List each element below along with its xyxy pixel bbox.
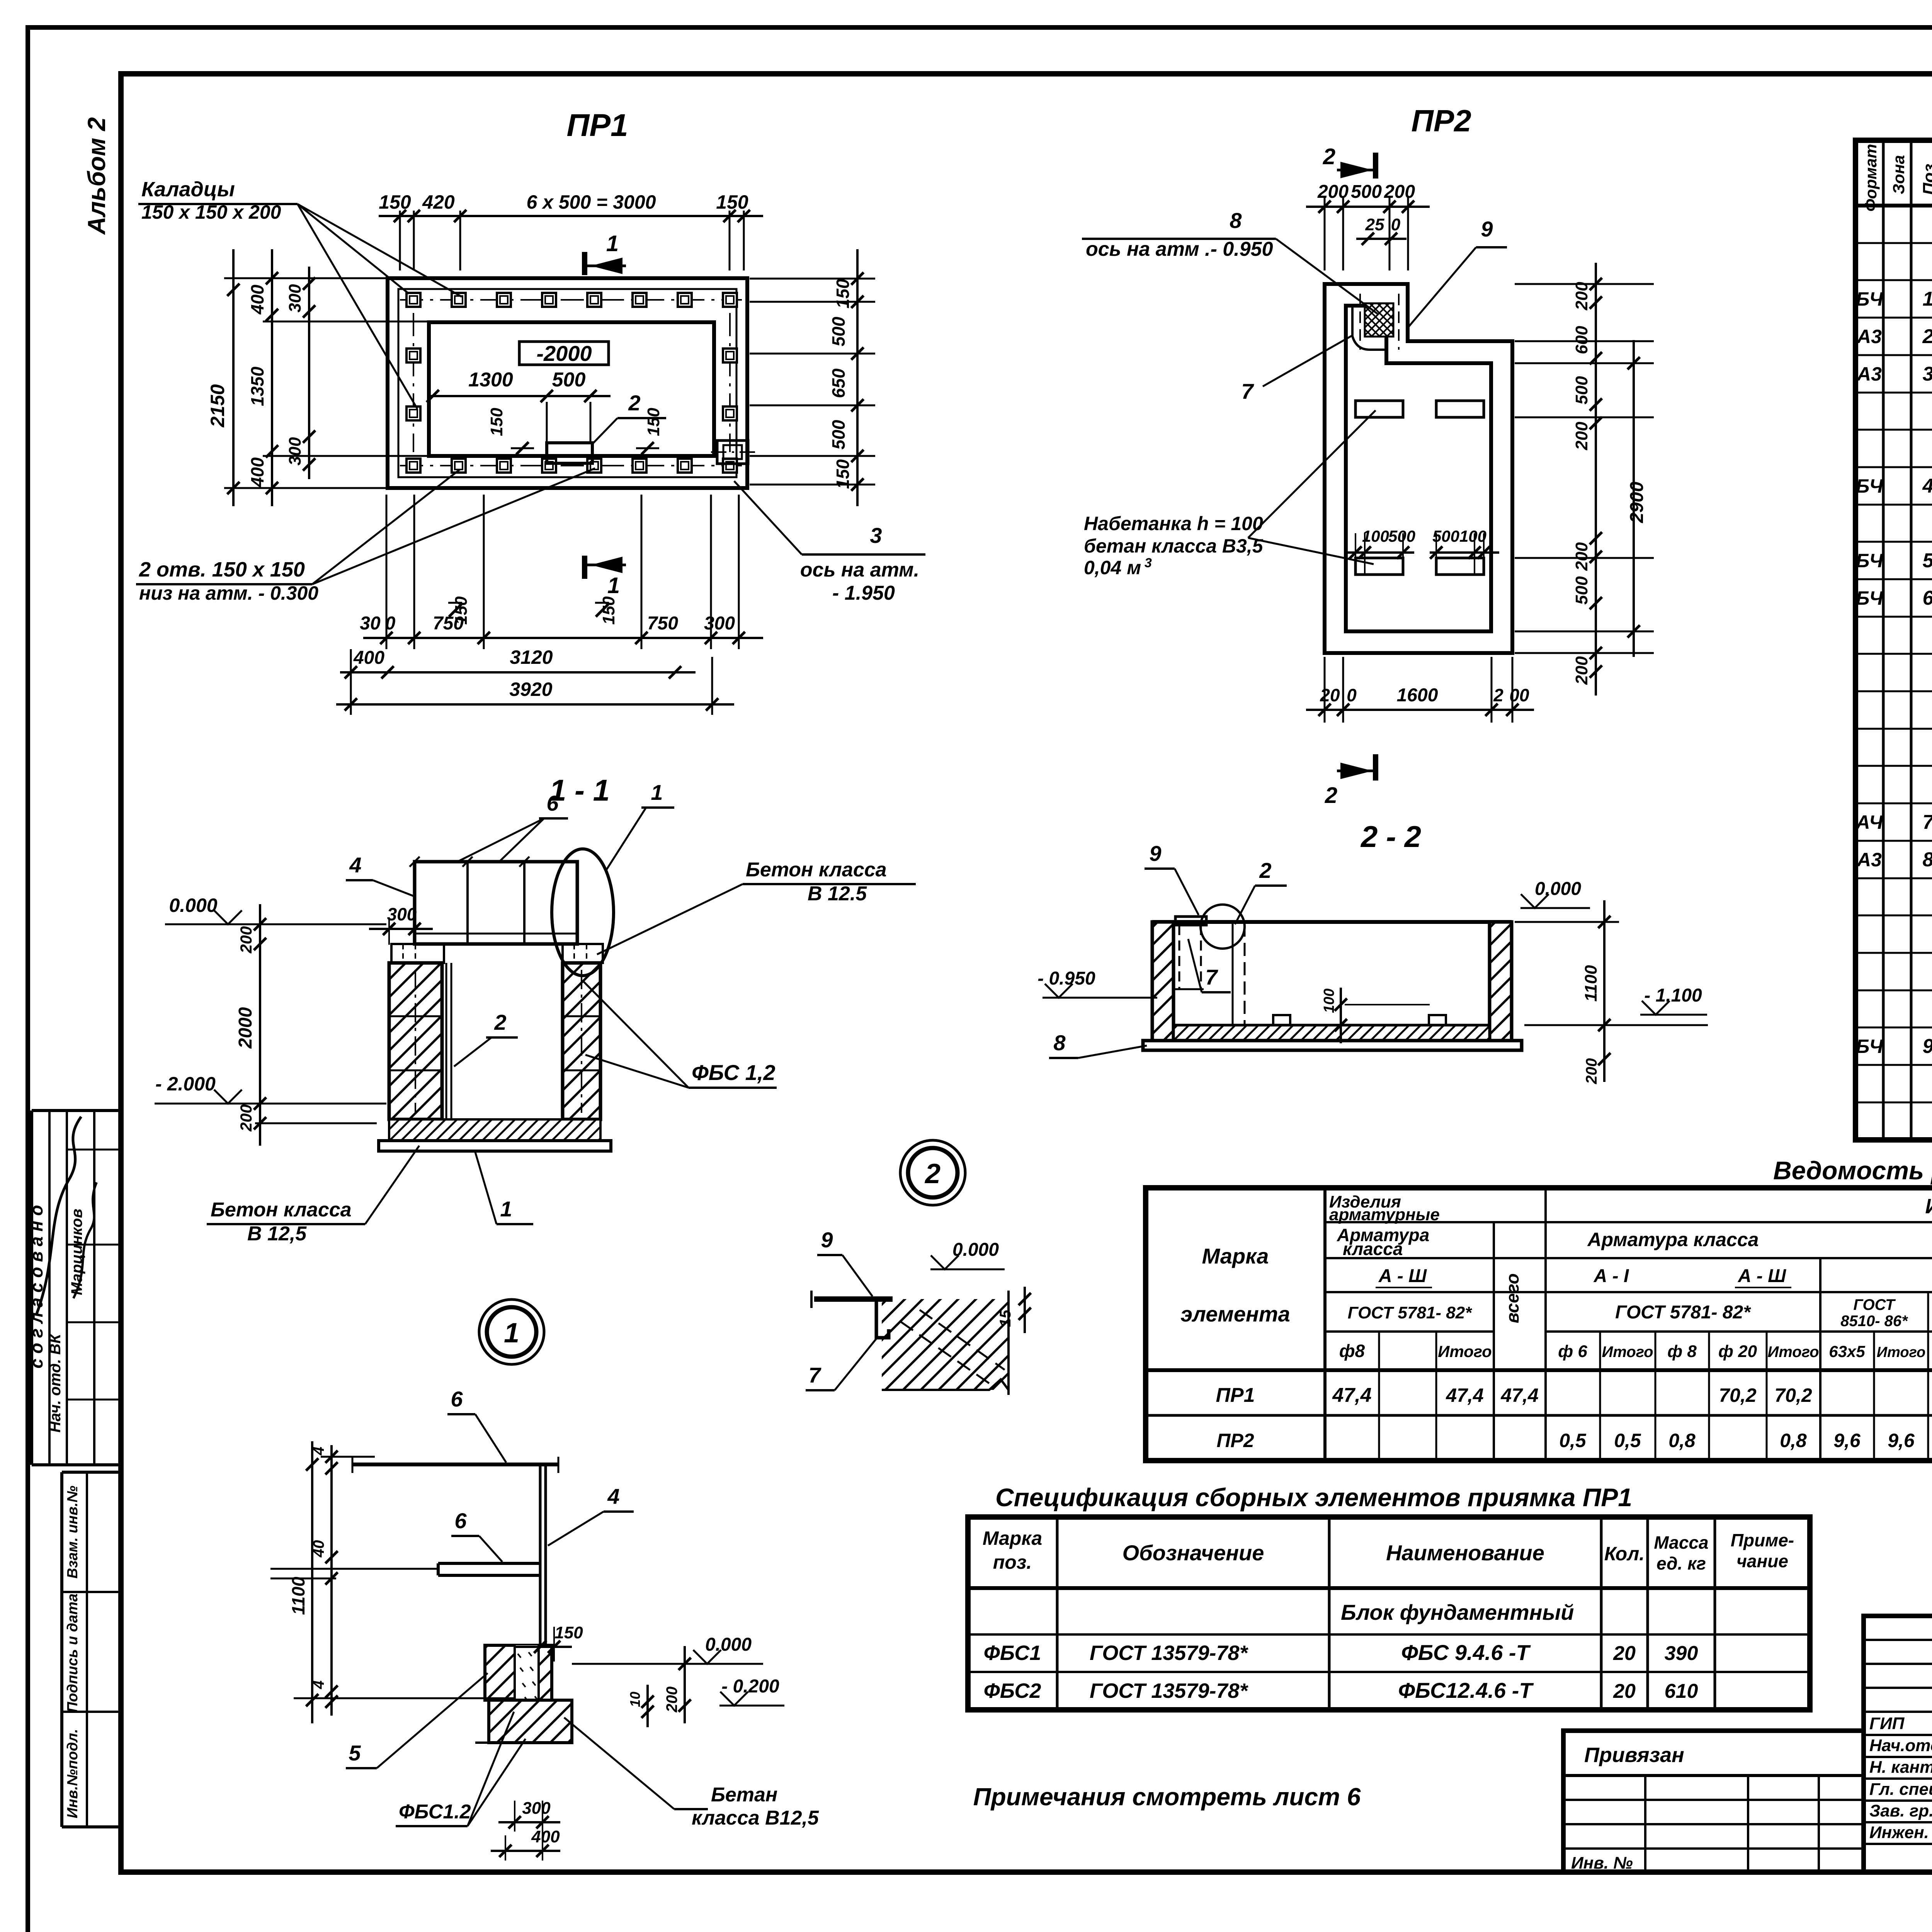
left stamp table (inv no / podpis) [62,1472,121,1827]
svg-text:2150: 2150 [207,384,228,427]
svg-text:ФБС2: ФБС2 [984,1679,1041,1702]
svg-text:ось на атм.: ось на атм. [800,559,919,581]
svg-text:300: 300 [522,1799,551,1818]
svg-text:2 - 2: 2 - 2 [1360,820,1421,854]
svg-text:1: 1 [607,573,620,598]
plan PR2 title [1411,104,1471,138]
section 2-2 level -0.950 [1037,968,1157,998]
section 2-2 dim 100 [1321,988,1430,1043]
detail 2 label 9 [817,1228,872,1296]
svg-text:ф 8: ф 8 [1667,1342,1697,1361]
section 2-2 tank walls [1143,922,1522,1050]
svg-text:150: 150 [833,279,853,308]
svg-text:300: 300 [704,613,735,634]
detail 1 level 0.000 [572,1634,763,1664]
svg-text:4: 4 [607,1484,619,1509]
svg-text:элемента: элемента [1180,1302,1290,1326]
svg-text:200: 200 [1572,542,1591,571]
svg-text:ГИП: ГИП [1869,1714,1905,1733]
svg-text:БЧ: БЧ [1856,1036,1884,1057]
svg-text:1: 1 [500,1197,512,1221]
svg-text:2: 2 [628,391,640,415]
spec table grid [1855,140,1932,1140]
svg-text:А3: А3 [1856,849,1882,871]
svg-text:ФБС12.4.6 -Т: ФБС12.4.6 -Т [1398,1678,1534,1702]
plan PR1 pit ledge (pos 2 opening) [547,443,592,463]
plan PR2 nabetonka note [1084,410,1376,578]
svg-text:Обозначение: Обозначение [1122,1541,1264,1565]
svg-text:100: 100 [1362,527,1389,545]
svg-text:400: 400 [247,457,267,487]
svg-text:2: 2 [1493,685,1503,705]
svg-text:200: 200 [663,1687,680,1713]
svg-text:5: 5 [349,1741,361,1765]
left stamp table (soglasovano) [26,1111,121,1465]
svg-text:БЧ: БЧ [1856,550,1884,571]
svg-text:А - Ш: А - Ш [1738,1266,1786,1286]
section 1-1 label FBS 1,2 [583,981,777,1088]
svg-text:- 1.100: - 1.100 [1644,985,1702,1006]
vedomost header texts [1180,1192,1932,1367]
svg-text:200: 200 [237,926,255,954]
svg-text:8: 8 [1923,849,1932,871]
svg-text:150: 150 [487,408,506,436]
svg-text:20: 20 [1613,1680,1636,1702]
detail 2 level 0.000 [930,1240,1005,1269]
svg-text:2: 2 [1259,858,1271,883]
svg-text:2 отв. 150 x 150: 2 отв. 150 x 150 [139,558,305,581]
svg-text:3920: 3920 [509,679,552,700]
plan PR1 anchor plates left+right columns [406,313,737,452]
svg-text:200: 200 [1317,182,1349,202]
svg-text:7: 7 [808,1363,821,1387]
svg-text:20: 20 [1613,1642,1636,1665]
svg-text:2: 2 [1325,783,1337,808]
plan PR2 section mark 2 (bottom) [1325,754,1376,808]
svg-text:Каладцы: Каладцы [141,178,235,201]
svg-text:150: 150 [599,596,618,625]
plan PR2 salnik (gland) hatch [1352,294,1399,350]
svg-text:Изделия закладные: Изделия закладные [1925,1195,1932,1218]
plan PR2 section mark 2 (top) [1323,144,1376,179]
plan PR1 leader pos 3 axis note [734,481,925,604]
plan PR1 left dimension chains [207,249,429,506]
svg-text:5: 5 [1923,549,1932,572]
svg-text:бетан класса В3,5: бетан класса В3,5 [1084,535,1264,557]
detail 1 label FBS1.2 [396,1712,526,1826]
svg-text:9,6: 9,6 [1888,1430,1915,1451]
section 1-1 ladder pos 2 [446,963,451,1119]
plan PR1 anchor plates bottom row [400,459,742,473]
section 2-2 label 8 [1049,1031,1147,1058]
svg-text:9: 9 [1481,217,1493,241]
svg-text:В 12,5: В 12,5 [247,1223,307,1245]
svg-text:500: 500 [1351,182,1382,202]
precast elements table texts [983,1527,1794,1702]
svg-text:1600: 1600 [1397,685,1438,706]
svg-text:0: 0 [1391,215,1401,234]
svg-text:150: 150 [833,459,853,489]
svg-text:Гл. спец.: Гл. спец. [1869,1780,1932,1799]
section 2-2 floor pads [1273,1015,1446,1025]
detail 1 note beton B12.5 [564,1718,819,1829]
plan PR1 anchor plates top row [400,293,742,307]
svg-text:ФБС1.2: ФБС1.2 [399,1801,471,1823]
plan PR1 walls [388,278,747,488]
svg-text:3: 3 [870,523,882,548]
svg-text:70,2: 70,2 [1774,1384,1812,1406]
svg-text:0,8: 0,8 [1780,1430,1807,1451]
svg-text:2: 2 [1323,144,1335,169]
plan PR1 corner plate pos 9 [711,440,757,464]
section 2-2 label 2 [1235,858,1287,924]
svg-text:500: 500 [828,420,849,449]
svg-text:70,2: 70,2 [1719,1384,1757,1406]
svg-text:2900: 2900 [1627,481,1647,523]
svg-text:500: 500 [552,369,586,391]
svg-text:30: 30 [360,613,381,634]
svg-text:ф 6: ф 6 [1558,1342,1587,1361]
section 2-2 label 9 [1145,841,1199,915]
svg-text:4: 4 [310,1447,327,1456]
plan PR2 label pos 8 axis note [1082,208,1378,314]
section 1-1 note beton B12.5 (top right) [597,859,916,954]
svg-text:150: 150 [452,596,471,625]
svg-text:Зона: Зона [1889,155,1908,194]
svg-text:чание: чание [1736,1551,1788,1571]
precast elements table title [995,1483,1632,1512]
plan PR2 mid dimensions 100 500 [1345,527,1499,576]
svg-text:Бетон класса: Бетон класса [746,859,887,881]
svg-text:Марка: Марка [983,1527,1042,1549]
svg-text:6: 6 [454,1509,467,1533]
svg-text:6: 6 [546,791,559,815]
detail 1 label 4 [548,1484,634,1546]
svg-text:40: 40 [310,1540,327,1558]
svg-text:ГОСТ 5781- 82*: ГОСТ 5781- 82* [1615,1302,1751,1323]
detail 1 labels 6 [447,1387,506,1463]
svg-text:500: 500 [828,316,849,346]
svg-text:610: 610 [1665,1680,1698,1702]
section 1-1 left wall (FBS blocks) [389,963,442,1119]
svg-text:200: 200 [1572,656,1591,685]
svg-text:Марка: Марка [1202,1244,1269,1268]
svg-text:6 х 500 = 3000: 6 х 500 = 3000 [526,191,656,213]
svg-text:В 12.5: В 12.5 [808,883,867,905]
section 1-1 note beton B12.5 (bottom left) [207,1146,419,1245]
svg-text:400: 400 [247,284,267,315]
svg-text:А - I: А - I [1594,1266,1629,1286]
svg-text:Набетанка h = 100: Набетанка h = 100 [1084,513,1263,534]
svg-text:150: 150 [716,191,748,213]
detail 2 dim 15 [997,1287,1031,1333]
svg-text:8510- 86*: 8510- 86* [1840,1313,1908,1330]
section 1-1 dim 300 [369,904,433,945]
svg-text:2: 2 [924,1158,940,1189]
svg-text:ФБС1: ФБС1 [984,1641,1041,1665]
svg-text:10: 10 [627,1692,643,1707]
plan PR1 title [566,108,628,143]
svg-text:БЧ: БЧ [1856,475,1884,497]
section 1-1 cover slab [410,857,577,944]
svg-text:2: 2 [1922,325,1932,348]
svg-text:0.000: 0.000 [952,1240,999,1260]
svg-text:Подпись и дата: Подпись и дата [65,1594,81,1713]
svg-text:8: 8 [1053,1031,1066,1055]
section 1-1 label 1 (top) [607,780,674,869]
svg-text:25: 25 [1365,215,1384,234]
svg-text:Кол.: Кол. [1604,1543,1645,1565]
section 1-1 label 4 [346,853,415,896]
section 1-1 left dimension chain [235,904,386,1146]
precast elements table grid [968,1517,1810,1710]
svg-text:7: 7 [1241,379,1254,403]
svg-text:Привязан: Привязан [1584,1743,1684,1767]
title block staff names [1869,1714,1932,1842]
svg-text:Примечания смотреть лист: Примечания смотреть лист 6 [973,1783,1361,1811]
svg-text:0: 0 [385,613,396,634]
plan PR2 right dimension chains [1515,263,1654,696]
section 2-2 label 7 [1188,939,1231,992]
svg-text:1100: 1100 [1582,965,1600,1002]
svg-text:8: 8 [1230,208,1242,233]
svg-text:1: 1 [606,231,619,256]
svg-text:арматурные: арматурные [1329,1205,1440,1224]
svg-text:47,4: 47,4 [1500,1384,1538,1406]
svg-text:Нач. отд. ВК: Нач. отд. ВК [47,1333,64,1432]
detail 2 label 7 [806,1338,877,1390]
spec table header [1862,144,1932,211]
svg-text:0.000: 0.000 [1535,879,1581,899]
section 2-2 level 0.000 [1515,879,1619,922]
svg-text:- 1.950: - 1.950 [832,582,895,604]
svg-text:3120: 3120 [510,646,553,668]
svg-text:Итого: Итого [1602,1344,1653,1361]
plan PR1 right dimension chain [750,249,875,506]
plan PR2 label pos 7 [1229,335,1352,406]
svg-text:0,8: 0,8 [1668,1430,1696,1451]
plan PR1 section mark 1 (bottom) [585,556,626,598]
svg-text:класса: класса [1343,1239,1403,1259]
svg-text:АЧ: АЧ [1855,811,1883,833]
svg-text:47,4: 47,4 [1332,1384,1371,1406]
svg-text:- 0.200: - 0.200 [721,1676,779,1697]
plan PR1 label Kaladtsy 150x150x200 [138,178,462,409]
svg-text:400: 400 [353,648,384,668]
section 1-1 level mark 0.000 [165,895,255,924]
notes line [973,1783,1361,1811]
plan PR1 section mark 1 (top) [585,231,626,275]
svg-text:А - Ш: А - Ш [1378,1266,1427,1286]
plan PR1 top dimension chain [379,191,763,270]
detail circle mark 1 [479,1299,544,1364]
svg-text:Инв. №: Инв. № [1571,1854,1633,1872]
svg-text:9: 9 [821,1228,833,1252]
svg-text:0.000: 0.000 [705,1634,752,1655]
svg-text:ось на атм .- 0.950: ось на атм .- 0.950 [1086,238,1273,260]
svg-text:БЧ: БЧ [1856,587,1884,609]
section 1-1 level mark -2.000 [155,1073,255,1104]
svg-text:9: 9 [1149,841,1161,866]
svg-text:4: 4 [349,853,361,877]
detail 1 level -0.200 [719,1676,784,1706]
section 1-1 detail ellipse callout [552,849,614,976]
svg-text:ФБС 1,2: ФБС 1,2 [692,1060,775,1085]
title block staff table [1864,1616,1932,1872]
svg-text:Итого: Итого [1877,1344,1925,1361]
svg-text:низ на атм. - 0.300: низ на атм. - 0.300 [139,582,318,604]
svg-text:63х5: 63х5 [1829,1342,1865,1361]
plan PR1 inner dimension 1300/500 [427,369,663,454]
svg-text:500: 500 [1572,576,1591,605]
svg-text:Наименование: Наименование [1386,1541,1544,1565]
plan PR2 walls [1325,284,1512,653]
svg-text:Блок фундаментный: Блок фундаментный [1341,1600,1574,1624]
svg-text:-2000: -2000 [536,341,592,366]
plan PR2 label pos 9 [1406,217,1507,329]
section 1-1 label 1 (bottom) [475,1152,533,1224]
svg-text:Итого: Итого [1767,1344,1819,1361]
svg-text:9,6: 9,6 [1833,1430,1861,1451]
detail 1 dim 150 [514,1623,583,1662]
svg-text:6: 6 [1923,587,1932,609]
section 1-1 title [549,773,610,807]
svg-text:ГОСТ: ГОСТ [1854,1296,1896,1313]
svg-text:150: 150 [554,1623,583,1642]
svg-text:1100: 1100 [288,1577,308,1615]
detail 2 drawing (embedded angle) [811,1291,1009,1395]
svg-text:ПР1: ПР1 [566,108,628,143]
svg-text:Поз.: Поз. [1920,159,1932,195]
plan PR1 bottom dimension chains [336,495,763,715]
svg-text:ГОСТ 13579-78*: ГОСТ 13579-78* [1090,1641,1249,1665]
plan PR2 top dimension chain [1306,182,1430,270]
svg-text:300: 300 [286,437,304,466]
svg-text:всего: всего [1502,1273,1522,1323]
svg-text:с о г л а с о в а н о: с о г л а с о в а н о [26,1205,46,1368]
vedomost data rows [1216,1384,1932,1451]
section 2-2 title [1360,820,1421,854]
plan PR1 label pos 2 [593,391,666,444]
svg-text:1: 1 [651,780,663,804]
svg-text:1: 1 [1923,288,1932,310]
svg-text:2000: 2000 [235,1007,256,1049]
svg-text:Арматура класса: Арматура класса [1587,1229,1759,1250]
svg-text:Формат: Формат [1862,144,1880,211]
svg-text:4: 4 [1922,475,1932,497]
plan PR1 level label -2000 [519,341,609,366]
plan PR1 label 2 otv 150x150 [136,468,595,604]
svg-text:0.000: 0.000 [169,895,217,916]
svg-text:ПР2: ПР2 [1216,1430,1254,1451]
svg-text:150: 150 [379,191,411,213]
svg-text:100: 100 [1459,527,1486,545]
svg-text:4: 4 [310,1680,327,1689]
section 2-2 gland assembly top left [1173,905,1245,1025]
svg-text:Масса: Масса [1654,1532,1708,1553]
section 1-1 anchor strips on wall tops [391,944,603,963]
svg-text:3: 3 [1145,556,1152,570]
svg-text:200: 200 [1572,422,1591,451]
svg-text:6: 6 [451,1387,463,1411]
svg-text:Бетон класса: Бетон класса [211,1199,352,1221]
svg-text:750: 750 [647,613,678,634]
svg-text:ФБС 9.4.6 -Т: ФБС 9.4.6 -Т [1401,1640,1531,1665]
section 2-2 right dims [1524,900,1708,1084]
detail 1 left dimension chain [270,1441,514,1723]
svg-text:390: 390 [1665,1642,1698,1665]
svg-text:7: 7 [1923,811,1932,833]
svg-text:Бетан: Бетан [711,1784,777,1806]
detail 1 dims 200 10 [627,1646,691,1727]
svg-text:1350: 1350 [247,366,267,406]
svg-text:0,04 м: 0,04 м [1084,557,1141,578]
spec table rows PR2 part [1855,733,1932,1133]
svg-text:Итого: Итого [1438,1342,1492,1361]
svg-text:ф 20: ф 20 [1718,1342,1757,1361]
plan PR2 bottom dimension chain [1306,657,1534,723]
svg-text:650: 650 [828,368,849,398]
svg-text:ф8: ф8 [1339,1341,1365,1361]
section 1-1 label 2 [454,1010,518,1066]
plan PR2 floor pads [1355,401,1484,575]
svg-text:300: 300 [286,284,304,313]
svg-text:2: 2 [494,1010,506,1034]
svg-text:420: 420 [422,191,455,213]
vertical margin note Albom 2 [83,117,111,235]
svg-text:А3: А3 [1856,363,1882,385]
svg-text:20: 20 [1320,685,1340,705]
svg-text:500: 500 [1388,527,1415,545]
privyazan table [1563,1731,1864,1872]
svg-text:поз.: поз. [993,1551,1032,1573]
svg-text:А3: А3 [1856,326,1882,347]
svg-text:ПР2: ПР2 [1411,104,1471,138]
detail 1 drawing (post on foundation) [352,1457,572,1743]
detail 1 dims 300 400 [491,1799,560,1861]
detail 1 label 5 [346,1673,488,1768]
detail circle mark 2 [900,1140,965,1205]
spec table rows PR1 part [1856,210,1932,684]
svg-text:500: 500 [1572,376,1591,405]
section 1-1 label 6 [456,791,568,862]
vedomost steel table title [1773,1156,1932,1185]
svg-text:300: 300 [387,904,417,924]
svg-text:100: 100 [1321,988,1337,1013]
svg-text:Инв.№подл.: Инв.№подл. [65,1729,81,1818]
svg-text:9: 9 [1923,1035,1932,1058]
svg-text:200: 200 [1583,1058,1600,1085]
svg-text:200: 200 [1384,182,1415,202]
svg-text:класса В12,5: класса В12,5 [692,1807,819,1829]
section 1-1 bottom slab [379,1119,611,1151]
svg-text:Спецификация сборных элем: Спецификация сборных элементов приямка П… [995,1483,1632,1512]
svg-text:150: 150 [644,408,663,436]
svg-text:Н. кантр.: Н. кантр. [1869,1758,1932,1777]
svg-text:Приме-: Приме- [1731,1530,1794,1550]
svg-text:200: 200 [237,1104,255,1132]
svg-text:1: 1 [504,1318,519,1349]
svg-text:ПР1: ПР1 [1216,1384,1255,1406]
svg-text:0,5: 0,5 [1614,1430,1641,1451]
svg-text:Взам. инв.№: Взам. инв.№ [65,1486,81,1578]
svg-text:ГОСТ 13579-78*: ГОСТ 13579-78* [1090,1679,1249,1702]
svg-text:1300: 1300 [468,369,513,391]
svg-text:47,4: 47,4 [1446,1384,1483,1406]
svg-text:600: 600 [1572,326,1591,354]
svg-text:7: 7 [1205,965,1218,989]
svg-text:Альбом 2: Альбом 2 [83,117,111,235]
